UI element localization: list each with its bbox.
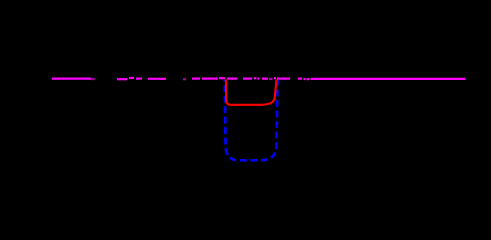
- blue dashed deep well: [225, 80, 278, 160]
- red solid shallow well: [226, 80, 277, 105]
- magenta energy line segments: [52, 78, 465, 79]
